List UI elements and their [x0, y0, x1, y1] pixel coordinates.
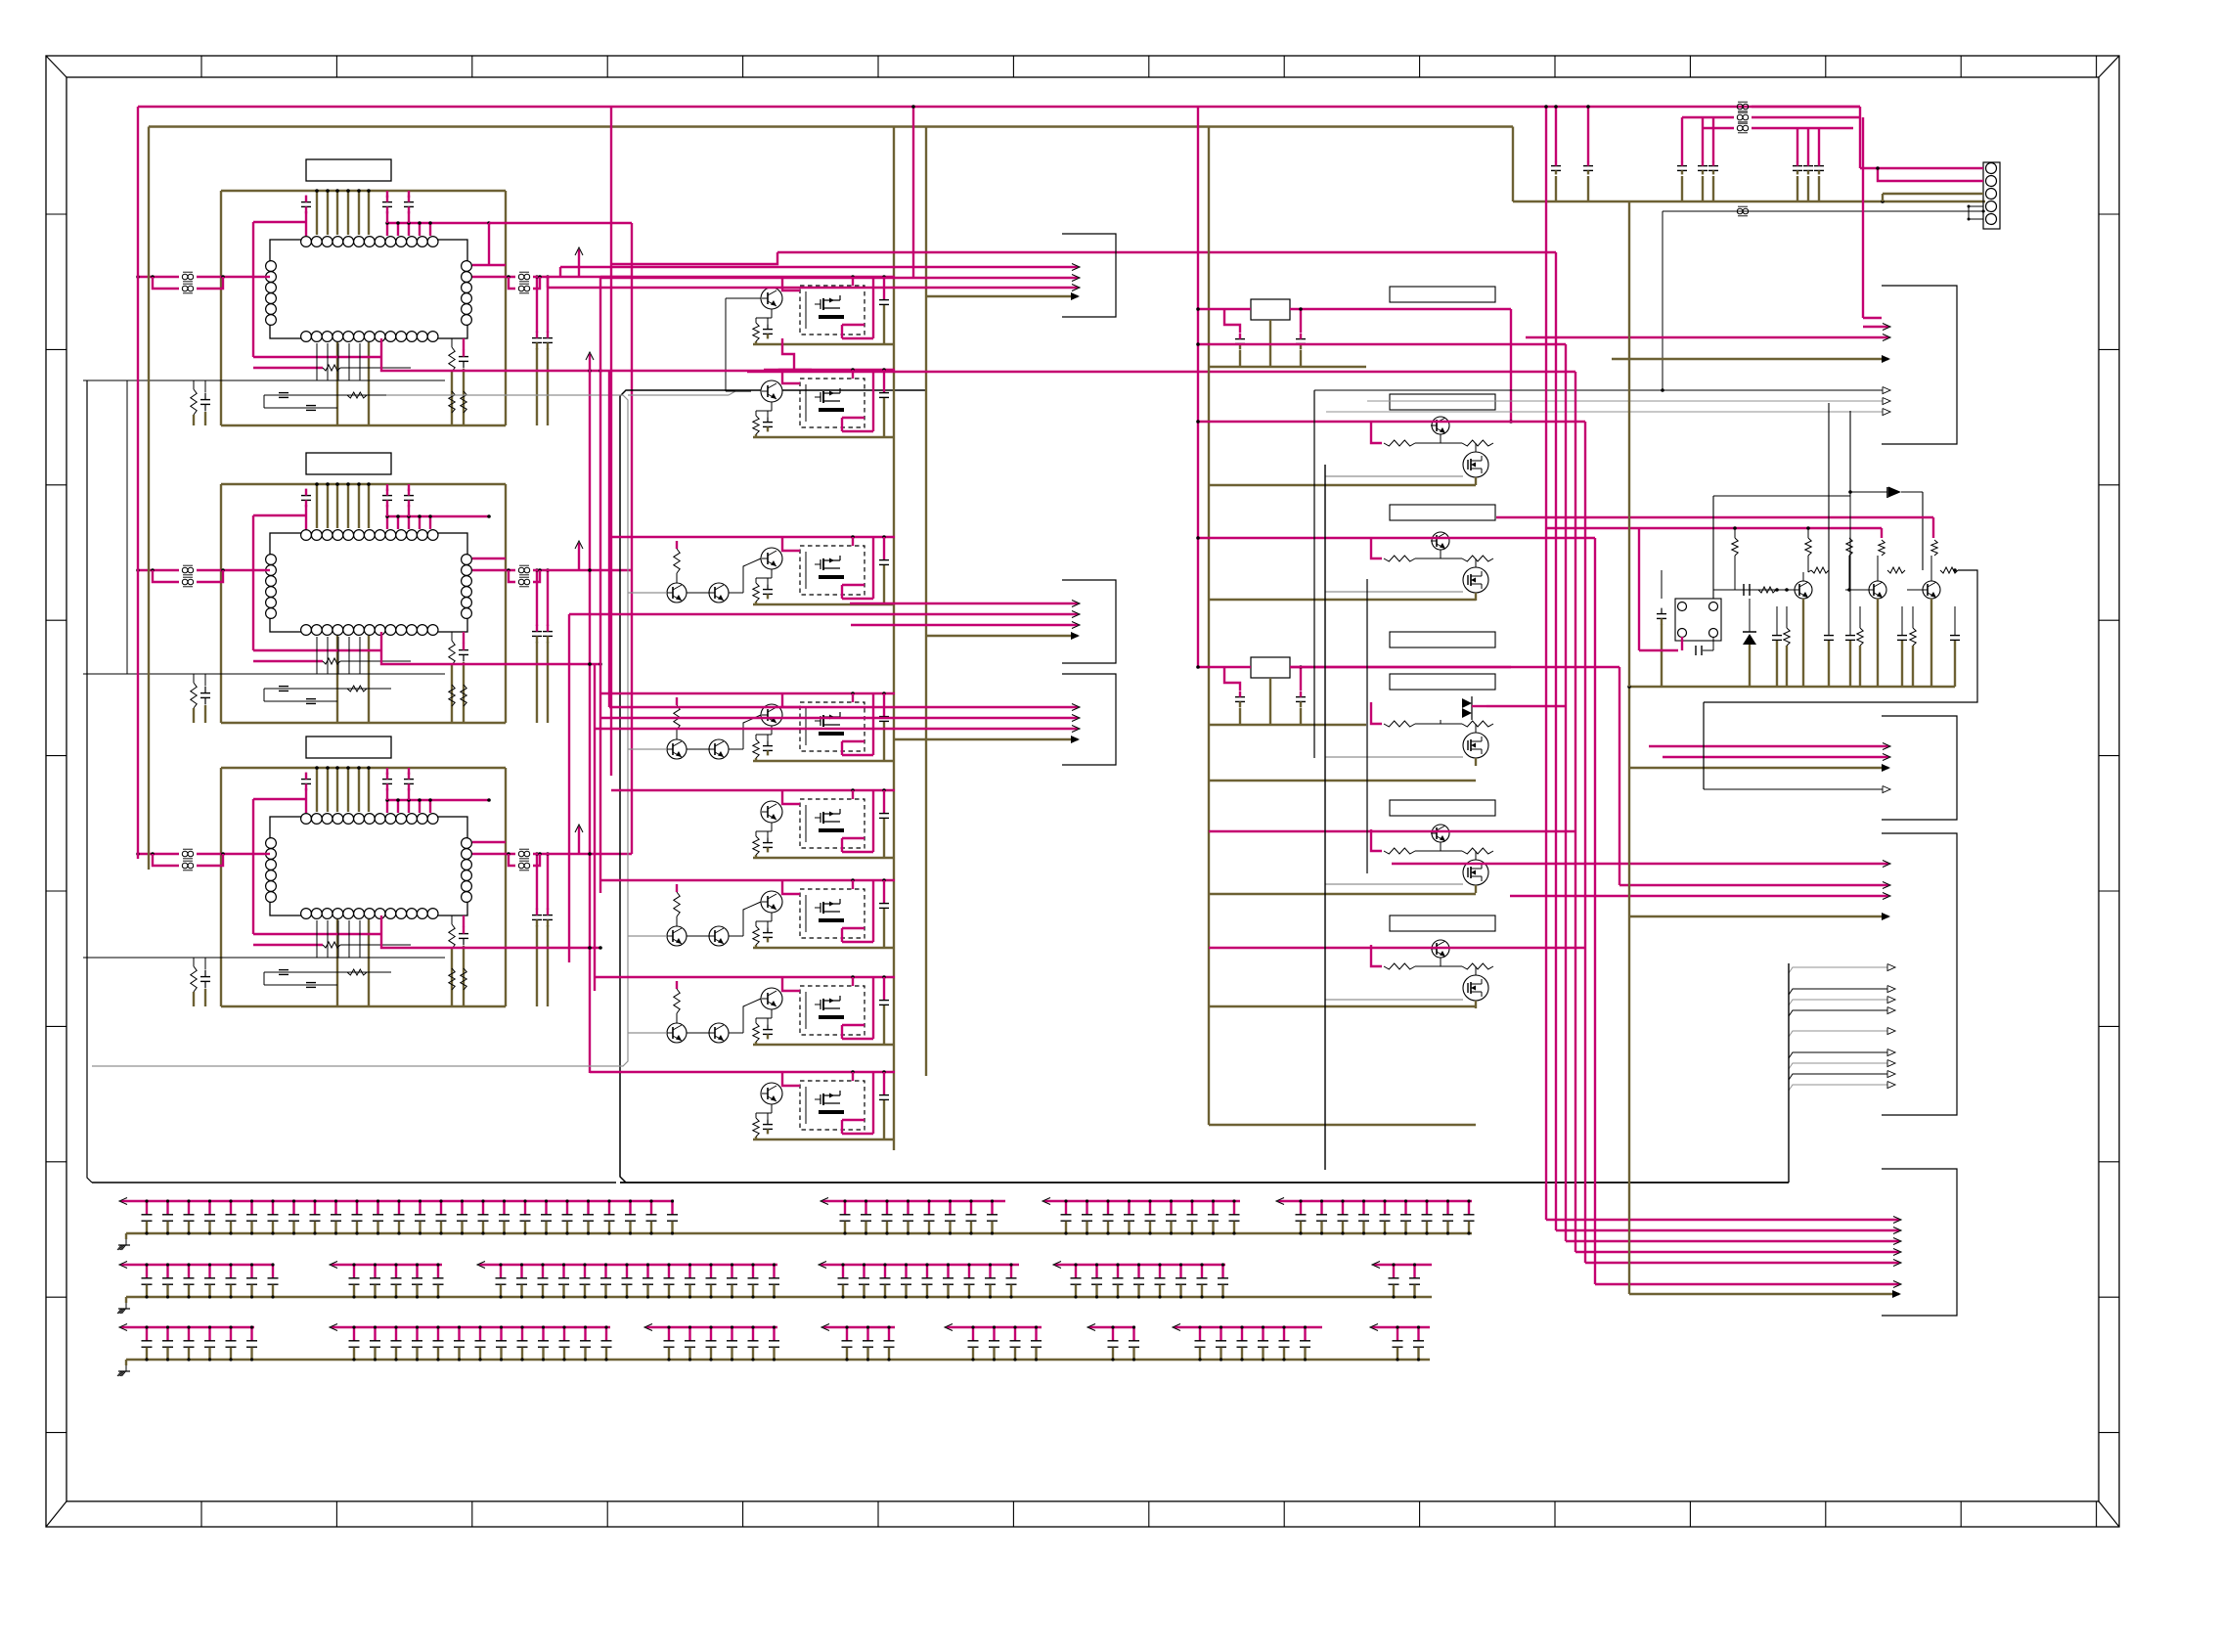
resistor+cap right of IC: [449, 347, 455, 372]
bypass capacitor: [773, 1327, 775, 1341]
long bundle vertical x603 with top arrow: [589, 354, 591, 371]
magenta module hookup: [782, 977, 800, 991]
caps right of IC with olive tails: [532, 915, 542, 916]
driver BJT: [1432, 940, 1449, 958]
bypass capacitor: [972, 1327, 974, 1341]
cell top bus through: [764, 369, 895, 371]
bypass capacitor: [989, 1265, 991, 1278]
bypass capacitor: [1095, 1265, 1097, 1278]
connector bracket: [1062, 580, 1116, 663]
row magenta segment: [1175, 1326, 1322, 1328]
ferrite bead pair left of IC: [138, 853, 179, 855]
bypass capacitor: [905, 1265, 907, 1278]
row olive bus: [126, 1359, 1430, 1361]
cell olive ground: [753, 947, 894, 949]
row olive bus: [126, 1232, 1472, 1234]
cell output cap: [883, 693, 885, 716]
gray gate line: [1325, 475, 1463, 477]
black fan vertical: [1788, 963, 1790, 1183]
bypass capacitor: [1384, 1201, 1386, 1215]
bypass capacitor: [479, 1327, 481, 1341]
olive vertical feed x1236: [1208, 127, 1210, 1126]
bypass capacitor: [668, 1327, 670, 1341]
IC U3 body: [270, 817, 467, 915]
magenta bus left vertical: [137, 107, 139, 859]
cell top bus through: [764, 276, 895, 278]
IC pins right: [462, 261, 472, 272]
bypass capacitor: [500, 1327, 502, 1341]
olive verticals in middle column: [893, 127, 895, 1151]
regulator caps: [1235, 338, 1245, 340]
cell olive ground: [753, 1044, 894, 1046]
IC pins left: [266, 838, 277, 849]
bypass capacitor: [314, 1201, 316, 1215]
magenta feed corner: [1371, 829, 1382, 851]
row magenta segment: [947, 1326, 1042, 1328]
resistor on bottom magenta: [323, 942, 340, 948]
regulator caps: [1235, 696, 1245, 698]
magenta feed corner: [1371, 422, 1382, 443]
bypass capacitor: [520, 1265, 522, 1278]
bypass capacitor: [626, 1265, 628, 1278]
bypass capacitor: [166, 1327, 168, 1341]
label box: [1390, 394, 1495, 410]
cell supply horizontals (magenta): [1198, 421, 1585, 423]
bypass capacitor: [668, 1265, 670, 1278]
magenta module hookup: [782, 277, 800, 290]
right connector bracket: [1882, 716, 1957, 820]
cell olive ground: [753, 1139, 894, 1140]
bypass capacitor: [1212, 1201, 1214, 1215]
analog olive ground bus: [1629, 686, 1955, 688]
bypass capacitor: [888, 1327, 890, 1341]
bypass capacitor: [1086, 1201, 1087, 1215]
bypass capacitor: [1107, 1201, 1109, 1215]
emitter olive drops: [1802, 599, 1804, 687]
magenta feed corner: [1371, 537, 1382, 558]
black pin wiring below IC: [83, 673, 445, 675]
bypass capacitor: [188, 1265, 190, 1278]
magenta supply line1: [1496, 516, 1933, 518]
bypass capacitor: [773, 1265, 775, 1278]
row magenta segment: [821, 1264, 1019, 1266]
olive supply box around IC: [221, 190, 506, 192]
bypass capacitor: [587, 1201, 589, 1215]
resistor on bottom magenta: [323, 365, 340, 371]
bypass capacitor: [629, 1201, 631, 1215]
olive vertical to B4: [1628, 201, 1630, 687]
label box: [1390, 674, 1495, 690]
bypass capacitor: [1201, 1265, 1203, 1278]
bypass capacitor: [1014, 1327, 1016, 1341]
bypass capacitor: [1075, 1265, 1077, 1278]
driver BJT: [1432, 532, 1449, 550]
bypass capacitor: [377, 1201, 378, 1215]
magenta wiring around IC: [253, 221, 306, 223]
olive source line: [1475, 593, 1477, 601]
IC U1 body: [270, 240, 467, 338]
cell feed horizontals: [600, 276, 764, 278]
bypass capacitor: [947, 1265, 949, 1278]
bypass capacitor: [863, 1265, 865, 1278]
magenta bottom wiring: [253, 933, 381, 935]
bypass capacitor: [562, 1265, 564, 1278]
row magenta segment: [121, 1264, 274, 1266]
right connector bracket: [1882, 286, 1957, 444]
magenta vertical x934 from top bus: [912, 107, 914, 277]
black pin wiring below IC: [83, 957, 445, 959]
driver transistor Q: [761, 704, 782, 726]
bypass capacitor: [334, 1201, 336, 1215]
gray fanout arrows: [1789, 967, 1799, 973]
bypass capacitor: [926, 1265, 928, 1278]
bypass capacitor: [1035, 1327, 1037, 1341]
resistor+cap left of IC below: [191, 389, 197, 415]
magenta module hookup: [782, 790, 800, 804]
resistor+cap right of IC: [449, 924, 455, 949]
bypass capacitor: [146, 1327, 148, 1341]
olive source line: [1475, 758, 1477, 766]
magenta bottom wiring: [253, 649, 381, 651]
bypass capacitor: [188, 1201, 190, 1215]
bypass capacitor: [1221, 1265, 1223, 1278]
bypass capacitor: [752, 1327, 754, 1341]
gray gate line: [1325, 591, 1463, 593]
bypass capacitor: [1191, 1201, 1193, 1215]
connector pin4 pin5 stubs: [1969, 205, 1983, 207]
cell top bus through: [764, 789, 895, 791]
dual diode: [1462, 698, 1472, 708]
bypass capacitor: [731, 1265, 732, 1278]
bead on black line: [1663, 210, 1985, 212]
bypass capacitor: [437, 1327, 439, 1341]
bypass capacitor: [503, 1201, 505, 1215]
bypass capacitor: [650, 1201, 652, 1215]
row magenta segment: [1374, 1264, 1432, 1266]
bypass capacitor: [968, 1265, 970, 1278]
olive bus top right: [1512, 127, 1514, 202]
bypass capacitor: [250, 1265, 252, 1278]
voltage regulator box: [1251, 657, 1290, 678]
bypass capacitor: [907, 1201, 909, 1215]
bypass capacitor: [416, 1327, 418, 1341]
magenta feed corner: [1371, 702, 1382, 724]
magenta bus vertical: [1555, 252, 1557, 1230]
gray gate line: [1325, 756, 1463, 758]
bypass capacitor: [353, 1327, 355, 1341]
bypass capacitor: [608, 1201, 610, 1215]
bypass capacitor: [1199, 1327, 1201, 1341]
bypass capacitor: [188, 1327, 190, 1341]
cell output horizontals to right: [611, 252, 777, 264]
bypass capacitor: [991, 1201, 993, 1215]
bypass capacitor: [1010, 1265, 1012, 1278]
bypass capacitor: [545, 1201, 547, 1215]
bypass capacitor: [1320, 1201, 1322, 1215]
bypass capacitor: [1170, 1201, 1172, 1215]
bypass capacitor: [208, 1327, 210, 1341]
gate resistor+cap: [753, 1118, 759, 1137]
MOSFET module: [800, 286, 865, 335]
ferrite bead pair right of IC: [472, 276, 515, 278]
bypass capacitor: [1233, 1201, 1235, 1215]
bypass capacitor: [1426, 1201, 1428, 1215]
decoupling cap top-left of IC: [301, 495, 311, 497]
RC network below IC: [264, 971, 391, 973]
bypass capacitor: [374, 1265, 376, 1278]
IC block label: [306, 453, 391, 474]
magenta module hookup: [782, 880, 800, 894]
gate resistor+cap: [753, 926, 759, 945]
bypass capacitor: [1404, 1201, 1406, 1215]
bypass capacitor: [398, 1201, 400, 1215]
magenta power bus top: [138, 106, 1860, 108]
bypass capacitor: [1413, 1265, 1415, 1278]
bypass capacitor: [353, 1265, 355, 1278]
olive source line: [1475, 885, 1477, 893]
row magenta segment: [121, 1326, 254, 1328]
reg1 output drop to cell bus: [1510, 309, 1512, 422]
cell top bus through: [764, 1071, 895, 1073]
regulator wiring: [1198, 308, 1251, 310]
cell2 bus from block1 bottom line: [600, 370, 779, 372]
MOSFET module: [800, 379, 865, 427]
magenta module hookup: [782, 693, 800, 707]
black pin wiring below IC: [83, 380, 445, 381]
resistor+cap right of IC: [449, 641, 455, 665]
driver transistor Q: [761, 288, 782, 309]
signal into bracket: [548, 287, 1078, 289]
regulator wiring: [1198, 666, 1251, 668]
label box: [1390, 505, 1495, 520]
magenta drop to bracket1: [1862, 117, 1864, 318]
magenta module hookup: [782, 370, 800, 383]
cell top bus through: [764, 692, 895, 694]
bypass capacitor: [1128, 1201, 1130, 1215]
MOSFET module: [800, 889, 865, 938]
base resistors: [1384, 848, 1415, 854]
IC pins left: [266, 555, 277, 565]
magenta bus vertical: [1565, 344, 1567, 1241]
signal into bracket: [609, 706, 1078, 708]
bypass capacitor: [1362, 1201, 1364, 1215]
bypass capacitor: [395, 1265, 397, 1278]
regulator ground line: [1209, 724, 1366, 726]
row magenta segment: [1372, 1326, 1430, 1328]
up arrows near blocks: [578, 249, 580, 277]
resistor+cap left of IC below: [191, 966, 197, 992]
signal into bracket: [600, 277, 1078, 279]
label box: [1390, 800, 1495, 816]
bypass capacitor: [461, 1201, 463, 1215]
gray input line: [628, 1032, 667, 1034]
pre-driver BJT pair: [667, 926, 687, 946]
resistor+cap left of IC below: [191, 683, 197, 708]
signal into bracket: [560, 266, 1078, 268]
decoupling row ground: [117, 1309, 121, 1314]
decoupling caps top-right of IC: [382, 495, 392, 497]
IC pins top: [301, 814, 312, 825]
cell output cap: [883, 880, 885, 903]
decoupling caps top-right of IC: [382, 779, 392, 781]
row magenta segment: [823, 1326, 895, 1328]
bypass capacitor: [928, 1201, 930, 1215]
bypass capacitor: [671, 1201, 673, 1215]
row magenta segment: [332, 1326, 610, 1328]
olive source line: [1475, 1001, 1477, 1008]
bypass capacitor: [356, 1201, 358, 1215]
driver transistor Q: [761, 801, 782, 823]
middle section black enclosure: [620, 390, 926, 1183]
bypass capacitor: [250, 1201, 252, 1215]
bypass capacitor: [272, 1201, 274, 1215]
power MOSFET: [1463, 975, 1488, 1001]
olive pin stubs top: [316, 191, 318, 235]
olive supply box around IC: [221, 767, 506, 769]
bypass capacitor: [419, 1201, 421, 1215]
driver transistor Q: [761, 891, 782, 913]
IC pins top: [301, 530, 312, 541]
row magenta segment: [646, 1326, 777, 1328]
bypass capacitor: [842, 1265, 844, 1278]
bypass capacitor: [230, 1265, 232, 1278]
magenta bottom wiring: [253, 356, 381, 358]
magenta bus vertical: [1545, 107, 1547, 1220]
olive pin stub bottom: [368, 919, 370, 1006]
gray input line: [628, 592, 667, 594]
bypass capacitor: [524, 1201, 526, 1215]
bypass capacitor: [1149, 1201, 1151, 1215]
bypass capacitor: [1417, 1327, 1419, 1341]
olive source line: [1475, 477, 1477, 485]
olive ground horizontals right column: [1209, 484, 1476, 486]
bypass capacitor: [437, 1265, 439, 1278]
decoupling caps top-right of IC: [382, 201, 392, 203]
magenta module hookup: [782, 1072, 800, 1086]
olive pin stub bottom: [368, 636, 370, 723]
bottom magenta to bundle: [381, 357, 600, 371]
cell olive ground: [753, 760, 894, 762]
row magenta segment: [332, 1264, 442, 1266]
row magenta segment: [121, 1200, 674, 1202]
row magenta segment: [1044, 1200, 1240, 1202]
IC block label: [306, 737, 391, 758]
bypass capacitor: [230, 1327, 232, 1341]
base resistors: [1384, 721, 1415, 727]
magenta supply line2 (from cell bus): [1545, 527, 1882, 529]
resistor on bottom magenta: [323, 658, 340, 664]
bypass capacitor: [993, 1327, 995, 1341]
bypass capacitor: [1065, 1201, 1067, 1215]
cell output cap: [883, 1072, 885, 1094]
MOSFET module: [800, 1081, 865, 1130]
bias resistor: [674, 549, 680, 573]
MOSFET module: [800, 799, 865, 848]
bypass capacitor: [1117, 1265, 1119, 1278]
signal into bracket: [850, 603, 1078, 604]
row magenta segment: [1055, 1264, 1225, 1266]
cell output cap: [883, 370, 885, 392]
bypass capacitor: [566, 1201, 568, 1215]
MOSFET module: [800, 986, 865, 1035]
cell top bus through: [764, 536, 895, 538]
magenta bus vertical: [1575, 372, 1576, 1252]
bias resistor: [674, 989, 680, 1013]
IC pins left: [266, 261, 277, 272]
cell olive ground: [753, 603, 894, 605]
bypass capacitor: [208, 1201, 210, 1215]
black output bracket: [1704, 570, 1977, 702]
bypass capacitor: [710, 1265, 712, 1278]
gray gate feed line: [92, 395, 628, 1066]
bypass capacitor: [710, 1327, 712, 1341]
bypass capacitor: [865, 1201, 866, 1215]
shunt caps and resistors to ground: [1772, 635, 1782, 637]
ferrite bead pair right of IC: [472, 569, 515, 571]
bypass capacitor: [688, 1265, 690, 1278]
bypass capacitor: [1446, 1201, 1448, 1215]
cell olive ground: [753, 857, 894, 859]
pre-driver BJT pair: [667, 1023, 687, 1043]
bottom magenta to bundle: [381, 650, 600, 664]
black verticals from top: [1828, 403, 1830, 634]
cell output cap: [883, 790, 885, 813]
magenta feed 352 to bundle: [1198, 343, 1566, 345]
bypass capacitor: [542, 1327, 544, 1341]
gate resistor+cap: [753, 1023, 759, 1042]
magenta right-side vertical x646: [631, 223, 633, 854]
bypass capacitor: [1137, 1265, 1139, 1278]
magenta wiring around IC: [253, 514, 306, 516]
cell top bus through: [764, 879, 895, 881]
pre-driver BJT pair: [667, 583, 687, 603]
caps group3 on olive bus: [1797, 128, 1798, 162]
bypass capacitor: [1304, 1327, 1306, 1341]
gate resistor+cap: [753, 323, 759, 341]
bypass capacitor: [482, 1201, 484, 1215]
base resistors: [1384, 556, 1415, 561]
bypass capacitor: [416, 1265, 418, 1278]
bypass capacitor: [395, 1327, 397, 1341]
gray input line: [628, 935, 667, 937]
bypass capacitor: [1468, 1201, 1470, 1215]
bypass capacitor: [646, 1265, 648, 1278]
power MOSFET: [1463, 860, 1488, 885]
olive supply box around IC: [221, 483, 506, 485]
bypass capacitor: [1300, 1201, 1302, 1215]
diode D7: [1888, 487, 1901, 498]
extra bundle vertical x582: [568, 614, 570, 962]
driver transistor Q: [761, 548, 782, 569]
bypass capacitor: [146, 1265, 148, 1278]
connector wires: [1859, 107, 1861, 168]
RC network below IC: [264, 394, 391, 396]
right connector bracket: [1882, 1169, 1957, 1316]
signal into bracket: [595, 728, 1078, 730]
label box: [1390, 915, 1495, 931]
ferrite beads top right: [1737, 104, 1743, 110]
IC pins bottom: [301, 625, 312, 636]
label box: [1390, 632, 1495, 647]
magenta vertical feed x1225: [1197, 107, 1199, 666]
olive pin stubs top: [316, 484, 318, 528]
right connector bracket: [1882, 833, 1957, 1115]
bottom magenta to bundle: [381, 934, 600, 948]
decoupling row ground: [117, 1371, 121, 1376]
gray gate line: [1325, 999, 1463, 1001]
ferrite bead pair left of IC: [138, 569, 179, 571]
power MOSFET: [1463, 452, 1488, 477]
